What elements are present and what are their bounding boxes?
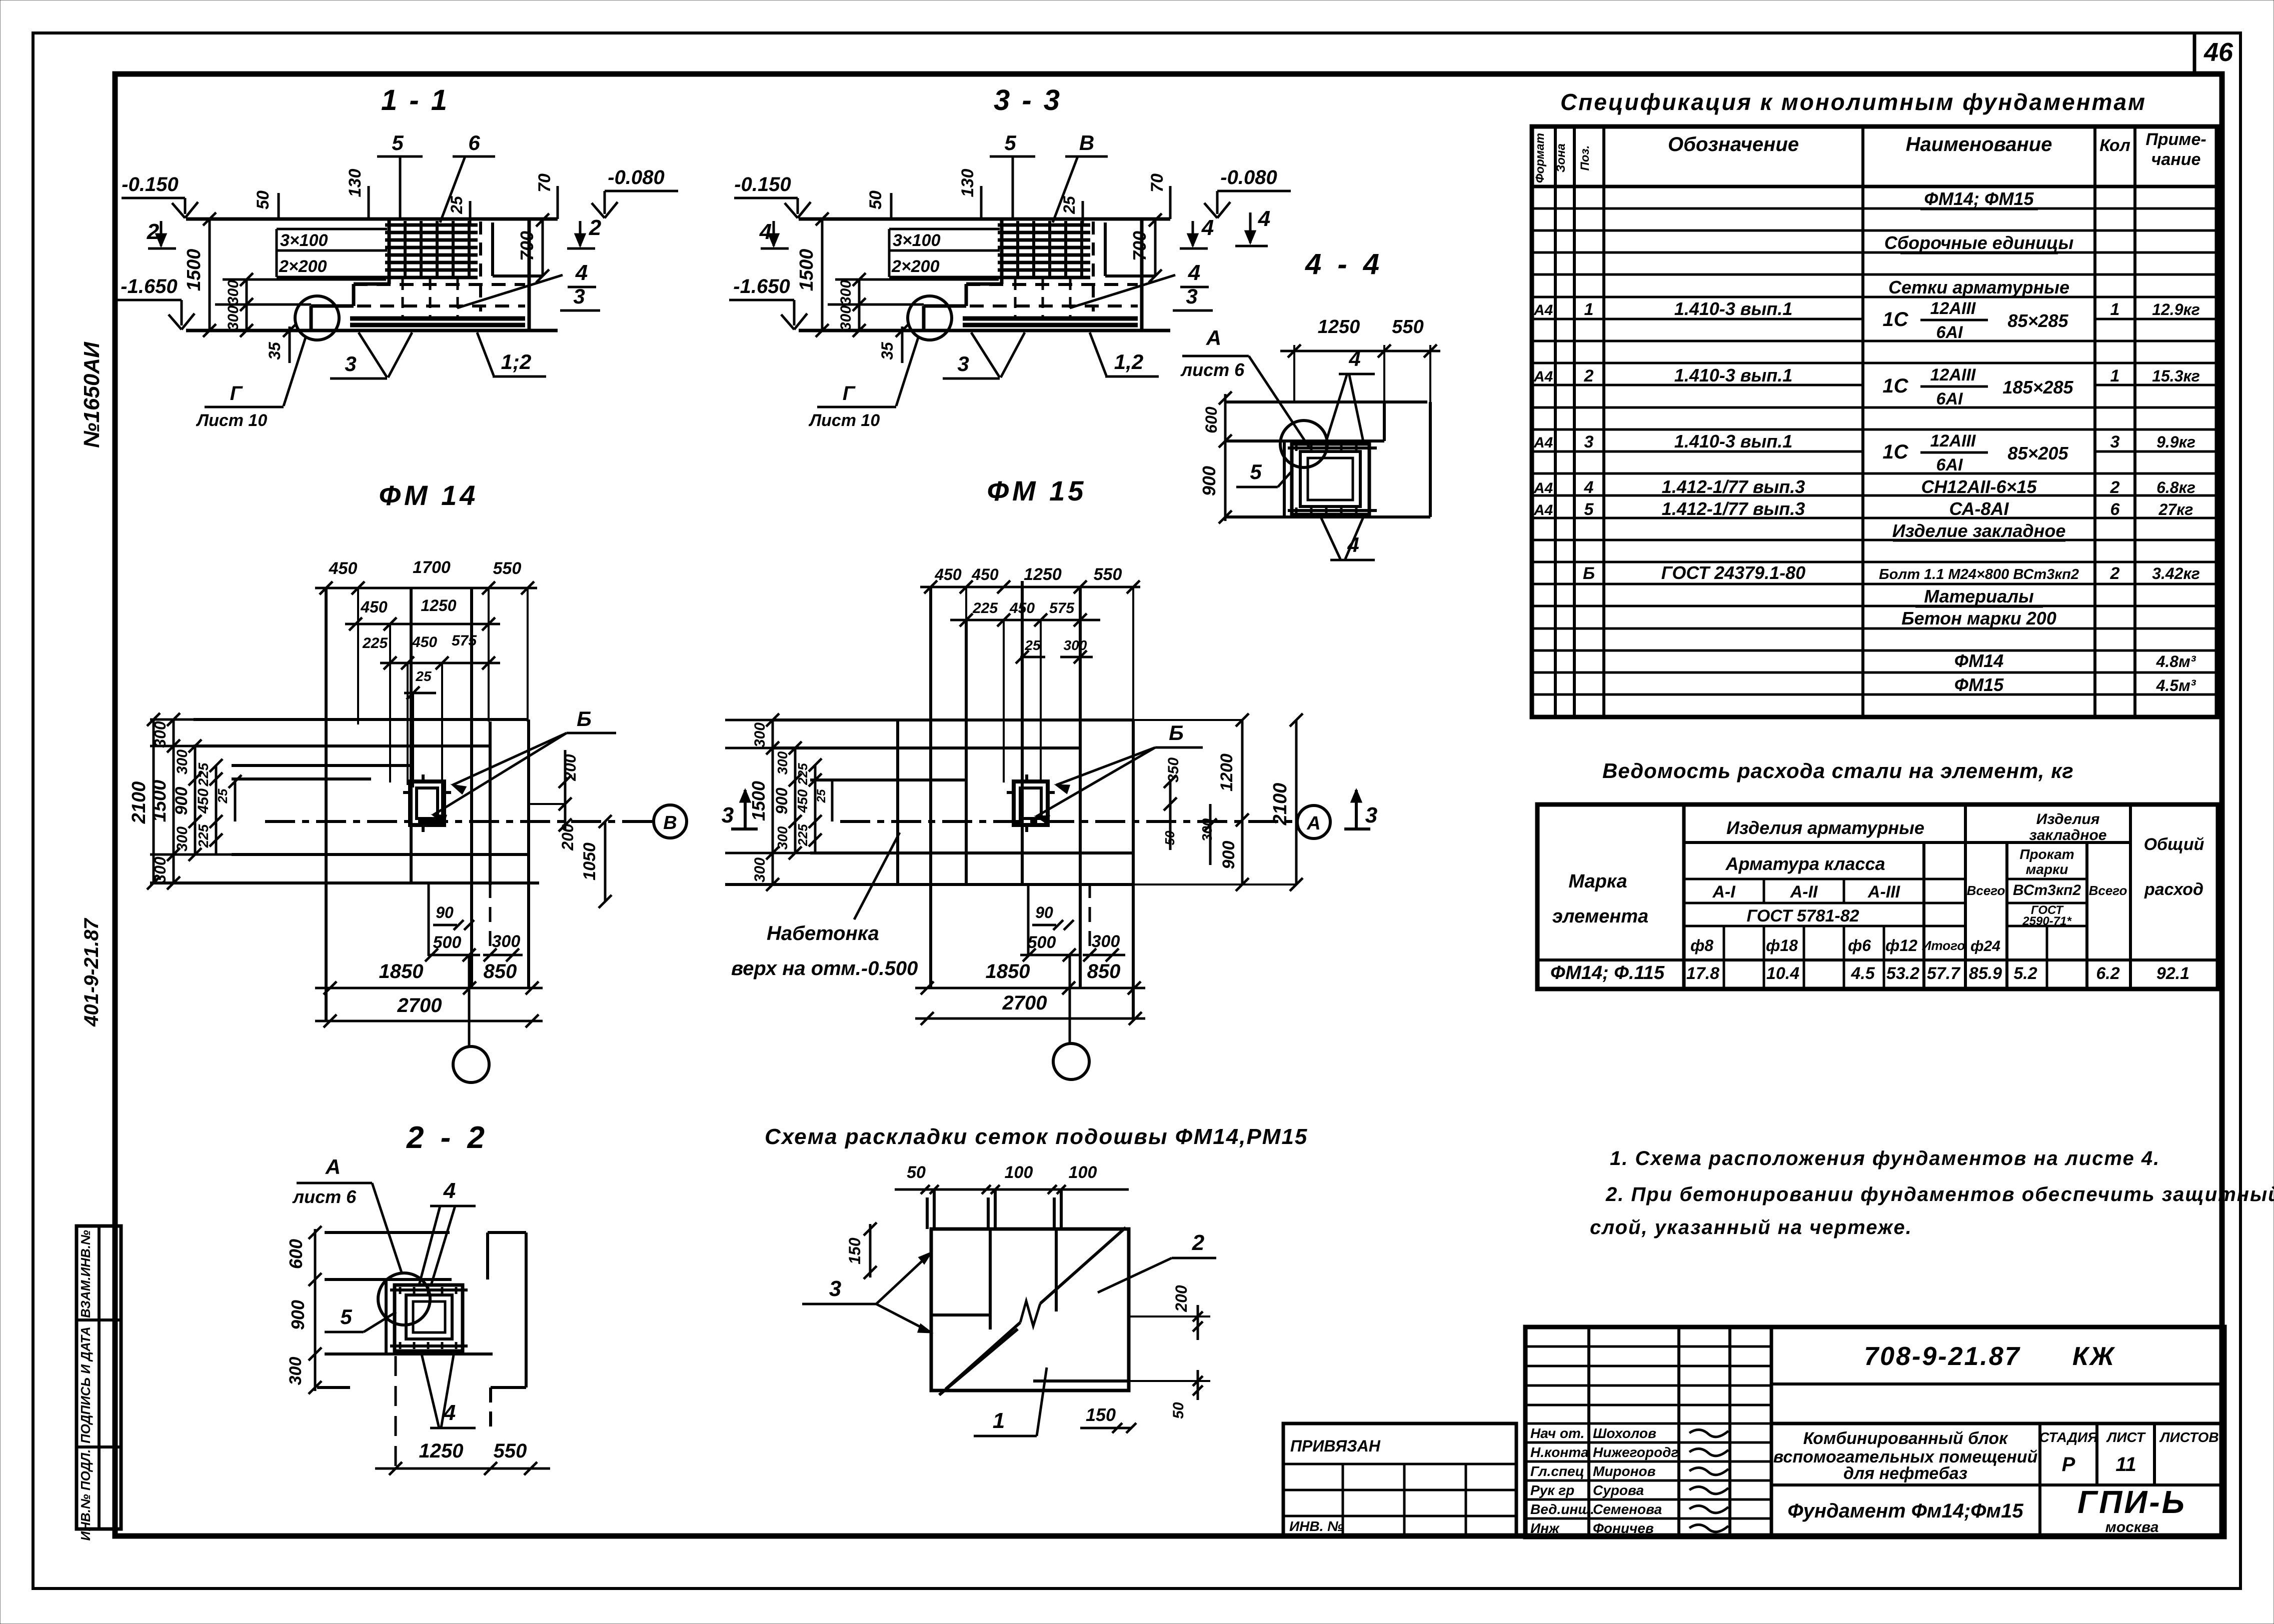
- svg-text:№1650АИ: №1650АИ: [80, 341, 104, 448]
- svg-text:Лист 10: Лист 10: [808, 411, 880, 430]
- svg-text:550: 550: [1392, 316, 1423, 337]
- svg-text:100: 100: [1069, 1163, 1097, 1182]
- svg-text:300: 300: [752, 722, 768, 747]
- svg-text:300: 300: [752, 857, 768, 882]
- svg-text:Набетонка: Набетонка: [767, 922, 879, 944]
- svg-text:5: 5: [1004, 131, 1016, 154]
- svg-text:Сурова: Сурова: [1593, 1482, 1644, 1498]
- svg-text:85.9: 85.9: [1969, 964, 2002, 983]
- svg-text:53.2: 53.2: [1886, 964, 1919, 983]
- svg-text:Сборочные единицы: Сборочные единицы: [1884, 232, 2074, 253]
- svg-text:Гл.спец: Гл.спец: [1530, 1463, 1584, 1479]
- svg-text:300: 300: [838, 305, 854, 330]
- svg-text:200: 200: [1172, 1285, 1190, 1312]
- svg-text:А-III: А-III: [1867, 882, 1901, 901]
- svg-text:300: 300: [151, 721, 169, 748]
- svg-text:3: 3: [573, 284, 585, 308]
- svg-text:225: 225: [196, 762, 211, 786]
- svg-text:ФМ14; Ф.115: ФМ14; Ф.115: [1550, 962, 1665, 983]
- svg-text:ф12: ф12: [1885, 936, 1917, 954]
- svg-text:1250: 1250: [419, 1440, 464, 1462]
- svg-text:575: 575: [452, 632, 477, 649]
- svg-text:5: 5: [1584, 500, 1594, 519]
- svg-text:3: 3: [1584, 432, 1594, 451]
- svg-text:Нижегородг: Нижегородг: [1593, 1444, 1678, 1460]
- svg-text:А: А: [325, 1155, 341, 1178]
- svg-text:1200: 1200: [1217, 753, 1236, 791]
- svg-text:-0.080: -0.080: [1220, 166, 1277, 188]
- svg-text:700: 700: [517, 231, 537, 261]
- svg-text:1.410-3 вып.1: 1.410-3 вып.1: [1674, 365, 1793, 385]
- svg-text:расход: расход: [2144, 880, 2203, 899]
- svg-text:СН12АII-6×15: СН12АII-6×15: [1921, 476, 2037, 497]
- svg-text:900: 900: [1219, 841, 1238, 869]
- svg-text:50: 50: [866, 190, 885, 209]
- svg-text:Г: Г: [843, 382, 856, 404]
- svg-text:4: 4: [1258, 206, 1270, 231]
- svg-text:ФМ 14: ФМ 14: [379, 479, 479, 511]
- svg-text:лист 6: лист 6: [292, 1186, 357, 1207]
- svg-text:Всего: Всего: [1967, 883, 2005, 898]
- svg-text:9.9кг: 9.9кг: [2156, 433, 2195, 451]
- svg-text:Фоничев: Фоничев: [1593, 1520, 1654, 1536]
- svg-text:300: 300: [174, 826, 191, 851]
- svg-text:ПОДПИСЬ И ДАТА: ПОДПИСЬ И ДАТА: [78, 1326, 93, 1443]
- svg-text:2590-71*: 2590-71*: [2022, 914, 2072, 928]
- svg-text:600: 600: [1202, 406, 1220, 433]
- svg-text:1С: 1С: [1882, 375, 1908, 397]
- svg-text:4: 4: [1348, 347, 1360, 370]
- svg-text:300: 300: [1199, 818, 1215, 841]
- svg-text:85×205: 85×205: [2007, 443, 2068, 463]
- svg-text:2: 2: [1584, 366, 1594, 385]
- svg-text:50: 50: [1170, 1402, 1187, 1419]
- svg-text:1850: 1850: [379, 960, 424, 982]
- svg-text:50: 50: [254, 190, 273, 209]
- svg-text:3: 3: [722, 803, 734, 827]
- svg-text:25: 25: [815, 789, 828, 803]
- svg-text:2×200: 2×200: [279, 257, 327, 276]
- svg-text:4.5: 4.5: [1850, 964, 1875, 983]
- svg-text:ИНВ.№ ПОДЛ.: ИНВ.№ ПОДЛ.: [78, 1449, 93, 1541]
- svg-text:-1.650: -1.650: [733, 275, 790, 297]
- svg-text:А4: А4: [1533, 502, 1553, 518]
- svg-text:Н.конта: Н.конта: [1530, 1444, 1589, 1460]
- svg-text:225: 225: [795, 824, 810, 846]
- svg-text:Вед.инш.: Вед.инш.: [1530, 1501, 1594, 1517]
- svg-text:450: 450: [195, 788, 212, 814]
- svg-text:2: 2: [589, 215, 602, 240]
- svg-text:Изделия арматурные: Изделия арматурные: [1726, 817, 1924, 838]
- svg-text:900: 900: [172, 787, 191, 815]
- svg-text:700: 700: [1129, 231, 1150, 261]
- svg-text:11: 11: [2115, 1453, 2136, 1475]
- svg-text:2: 2: [2110, 564, 2120, 583]
- svg-text:1.410-3 вып.1: 1.410-3 вып.1: [1674, 298, 1793, 319]
- svg-text:Материалы: Материалы: [1924, 586, 2034, 606]
- svg-text:А4: А4: [1533, 368, 1553, 385]
- svg-text:ЛИСТОВ: ЛИСТОВ: [2159, 1429, 2218, 1445]
- svg-text:СТАДИЯ: СТАДИЯ: [2039, 1429, 2098, 1445]
- svg-text:Марка: Марка: [1568, 871, 1627, 892]
- svg-text:ГПИ-Ь: ГПИ-Ь: [2077, 1484, 2186, 1520]
- svg-text:Схема раскладки сеток подошвы: Схема раскладки сеток подошвы ФМ14,РМ15: [765, 1124, 1308, 1149]
- svg-text:4: 4: [443, 1178, 456, 1203]
- svg-text:6АI: 6АI: [1936, 455, 1963, 474]
- svg-text:450: 450: [971, 565, 999, 583]
- svg-text:ЛИСТ: ЛИСТ: [2106, 1429, 2146, 1445]
- svg-text:Наименование: Наименование: [1906, 133, 2052, 155]
- svg-text:Всего: Всего: [2089, 883, 2127, 898]
- svg-text:Инж: Инж: [1530, 1520, 1560, 1536]
- svg-text:550: 550: [494, 1440, 527, 1462]
- svg-text:Изделия: Изделия: [2036, 811, 2100, 827]
- svg-text:4 - 4: 4 - 4: [1305, 248, 1383, 280]
- svg-text:слой, указанный на чертеже.: слой, указанный на чертеже.: [1590, 1216, 1912, 1238]
- svg-text:12АIII: 12АIII: [1930, 365, 1976, 384]
- svg-text:12АIII: 12АIII: [1930, 431, 1976, 450]
- svg-text:2: 2: [2110, 478, 2120, 497]
- svg-text:2100: 2100: [1270, 783, 1291, 826]
- svg-text:70: 70: [1148, 173, 1167, 192]
- svg-text:для нефтебаз: для нефтебаз: [1843, 1464, 1967, 1483]
- svg-text:ф8: ф8: [1690, 936, 1713, 954]
- svg-text:Прокат: Прокат: [2019, 846, 2074, 862]
- svg-text:3: 3: [1186, 284, 1197, 308]
- svg-text:4.5м³: 4.5м³: [2156, 676, 2196, 694]
- svg-text:450: 450: [934, 565, 962, 583]
- svg-text:3 - 3: 3 - 3: [994, 84, 1062, 116]
- svg-text:Болт 1.1 М24×800 ВСт3кп2: Болт 1.1 М24×800 ВСт3кп2: [1879, 566, 2079, 582]
- svg-text:3: 3: [345, 352, 356, 375]
- svg-text:Спецификация к монолитным ф: Спецификация к монолитным фундаментам: [1560, 89, 2146, 115]
- svg-text:708-9-21.87: 708-9-21.87: [1864, 1342, 2020, 1371]
- svg-text:1500: 1500: [184, 249, 205, 291]
- svg-text:50: 50: [1162, 830, 1177, 845]
- svg-text:5: 5: [1250, 460, 1262, 483]
- svg-text:1 - 1: 1 - 1: [381, 84, 449, 116]
- svg-text:1С: 1С: [1882, 308, 1908, 330]
- svg-text:200: 200: [561, 754, 579, 781]
- svg-text:ГОСТ 5781-82: ГОСТ 5781-82: [1746, 906, 1859, 925]
- svg-text:1.412-1/77 вып.3: 1.412-1/77 вып.3: [1662, 498, 1805, 519]
- svg-text:Обозначение: Обозначение: [1668, 133, 1799, 155]
- svg-text:300: 300: [225, 280, 242, 305]
- svg-text:6.8кг: 6.8кг: [2156, 478, 2195, 496]
- svg-text:2: 2: [147, 219, 160, 244]
- svg-text:90: 90: [436, 903, 454, 921]
- svg-text:300: 300: [286, 1357, 305, 1385]
- svg-text:2: 2: [1192, 1230, 1205, 1255]
- svg-text:1500: 1500: [796, 249, 817, 291]
- svg-text:1С: 1С: [1882, 441, 1908, 463]
- svg-text:3: 3: [829, 1276, 841, 1301]
- svg-text:Миронов: Миронов: [1593, 1463, 1656, 1479]
- svg-text:Нач от.: Нач от.: [1530, 1425, 1584, 1441]
- svg-text:марки: марки: [2026, 861, 2068, 877]
- svg-text:А4: А4: [1533, 480, 1553, 496]
- svg-text:12АIII: 12АIII: [1930, 299, 1976, 318]
- svg-text:6: 6: [2110, 500, 2120, 519]
- svg-text:Комбинированный блок: Комбинированный блок: [1803, 1429, 2009, 1448]
- svg-text:401-9-21.87: 401-9-21.87: [81, 917, 103, 1026]
- svg-text:300: 300: [838, 280, 854, 305]
- svg-text:-1.650: -1.650: [121, 275, 177, 297]
- svg-text:27кг: 27кг: [2158, 500, 2193, 518]
- svg-text:185×285: 185×285: [2002, 377, 2073, 397]
- svg-text:550: 550: [493, 559, 522, 578]
- svg-text:А-II: А-II: [1790, 882, 1818, 901]
- svg-text:Сетки арматурные: Сетки арматурные: [1888, 277, 2069, 297]
- svg-text:500: 500: [1028, 933, 1056, 952]
- svg-text:10.4: 10.4: [1766, 964, 1799, 983]
- svg-text:чание: чание: [2151, 150, 2201, 169]
- svg-text:А: А: [1206, 326, 1221, 349]
- svg-text:1250: 1250: [1318, 316, 1360, 337]
- svg-text:ф18: ф18: [1766, 936, 1798, 954]
- svg-text:Семенова: Семенова: [1593, 1501, 1662, 1517]
- svg-text:15.3кг: 15.3кг: [2152, 367, 2200, 385]
- svg-text:-0.080: -0.080: [608, 166, 664, 188]
- svg-text:900: 900: [773, 787, 791, 814]
- svg-text:москва: москва: [2105, 1519, 2159, 1535]
- svg-text:225: 225: [972, 600, 998, 616]
- svg-text:1250: 1250: [421, 596, 456, 614]
- svg-text:А4: А4: [1533, 302, 1553, 318]
- svg-text:4: 4: [759, 219, 772, 244]
- svg-text:300: 300: [151, 856, 169, 883]
- svg-text:150: 150: [846, 1237, 864, 1264]
- svg-text:Зона: Зона: [1554, 143, 1568, 172]
- svg-text:Шохолов: Шохолов: [1593, 1425, 1656, 1441]
- svg-text:-0.150: -0.150: [122, 173, 178, 195]
- svg-text:300: 300: [775, 751, 790, 774]
- svg-text:90: 90: [1035, 903, 1053, 921]
- svg-text:2. При бетонировании фундаме: 2. При бетонировании фундаментов обеспеч…: [1605, 1183, 2274, 1205]
- svg-text:550: 550: [1094, 565, 1122, 584]
- svg-text:1500: 1500: [748, 781, 769, 821]
- svg-text:ФМ14: ФМ14: [1954, 650, 2004, 671]
- svg-text:6АI: 6АI: [1936, 323, 1963, 342]
- svg-text:ИНВ. №: ИНВ. №: [1289, 1518, 1343, 1534]
- svg-text:46: 46: [2203, 38, 2233, 67]
- svg-text:450: 450: [360, 598, 388, 616]
- svg-text:225: 225: [362, 635, 388, 651]
- svg-text:ВЗАМ.ИНВ.№: ВЗАМ.ИНВ.№: [78, 1230, 93, 1318]
- svg-text:5.2: 5.2: [2013, 964, 2037, 983]
- svg-text:4: 4: [575, 260, 588, 285]
- svg-text:ФМ14; ФМ15: ФМ14; ФМ15: [1924, 188, 2034, 209]
- svg-text:А4: А4: [1533, 434, 1553, 451]
- svg-text:25: 25: [215, 788, 230, 803]
- svg-text:450: 450: [795, 789, 810, 813]
- svg-text:3×100: 3×100: [280, 231, 328, 250]
- svg-text:6АI: 6АI: [1936, 389, 1963, 408]
- svg-text:ф24: ф24: [1970, 938, 2000, 954]
- svg-text:1: 1: [2110, 366, 2120, 385]
- svg-text:Рук гр: Рук гр: [1530, 1482, 1574, 1498]
- svg-text:-0.150: -0.150: [734, 173, 791, 195]
- svg-text:2100: 2100: [129, 781, 150, 824]
- svg-text:1.412-1/77 вып.3: 1.412-1/77 вып.3: [1662, 476, 1805, 497]
- svg-text:Арматура класса: Арматура класса: [1725, 853, 1885, 874]
- svg-text:элемента: элемента: [1552, 906, 1648, 927]
- svg-text:575: 575: [1049, 600, 1075, 616]
- svg-text:850: 850: [1087, 960, 1121, 982]
- svg-text:ГОСТ 24379.1-80: ГОСТ 24379.1-80: [1661, 562, 1805, 583]
- svg-text:450: 450: [329, 559, 358, 578]
- svg-text:Фундамент Фм14;Фм15: Фундамент Фм14;Фм15: [1787, 1500, 2023, 1522]
- svg-text:3.42кг: 3.42кг: [2152, 564, 2200, 582]
- svg-text:300: 300: [174, 749, 191, 774]
- svg-text:5: 5: [340, 1305, 352, 1328]
- svg-text:ПРИВЯЗАН: ПРИВЯЗАН: [1290, 1437, 1381, 1455]
- svg-text:СА-8АI: СА-8АI: [1949, 498, 2009, 519]
- svg-text:Изделие закладное: Изделие закладное: [1892, 520, 2066, 541]
- svg-text:1250: 1250: [1024, 565, 1062, 584]
- svg-text:150: 150: [1086, 1404, 1116, 1425]
- svg-text:ФМ15: ФМ15: [1954, 674, 2004, 695]
- svg-text:900: 900: [1199, 466, 1219, 496]
- svg-text:300: 300: [775, 826, 790, 849]
- svg-text:Приме-: Приме-: [2145, 130, 2206, 149]
- svg-text:1850: 1850: [986, 960, 1030, 982]
- svg-text:225: 225: [196, 824, 211, 848]
- svg-text:1: 1: [1584, 300, 1594, 319]
- svg-text:25: 25: [415, 668, 432, 684]
- svg-text:50: 50: [907, 1163, 926, 1182]
- svg-text:3×100: 3×100: [893, 231, 941, 250]
- svg-text:В: В: [1079, 131, 1094, 154]
- svg-text:Общий: Общий: [2144, 835, 2204, 854]
- svg-text:3: 3: [1365, 803, 1377, 827]
- svg-text:1;2: 1;2: [501, 350, 532, 373]
- svg-text:900: 900: [288, 1300, 308, 1330]
- svg-text:6.2: 6.2: [2096, 964, 2119, 983]
- svg-text:200: 200: [559, 823, 577, 851]
- svg-text:ВСт3кп2: ВСт3кп2: [2013, 882, 2081, 898]
- svg-text:2700: 2700: [1002, 992, 1047, 1014]
- svg-text:2×200: 2×200: [891, 257, 940, 276]
- svg-text:57.7: 57.7: [1927, 964, 1961, 983]
- svg-text:5: 5: [392, 131, 404, 154]
- svg-text:3: 3: [957, 352, 969, 375]
- svg-text:1.410-3 вып.1: 1.410-3 вып.1: [1674, 431, 1793, 451]
- svg-text:ФМ 15: ФМ 15: [987, 475, 1087, 506]
- svg-text:Поз.: Поз.: [1578, 145, 1592, 171]
- svg-text:Формат: Формат: [1533, 133, 1547, 183]
- svg-text:Бетон марки 200: Бетон марки 200: [1901, 608, 2056, 628]
- svg-text:Итого: Итого: [1922, 938, 1965, 953]
- svg-text:70: 70: [535, 173, 554, 192]
- svg-text:А: А: [1306, 813, 1320, 834]
- svg-text:350: 350: [1165, 757, 1182, 782]
- svg-text:В: В: [663, 812, 677, 833]
- svg-text:850: 850: [484, 960, 517, 982]
- svg-text:1,2: 1,2: [1114, 350, 1143, 373]
- svg-text:Кол: Кол: [2099, 136, 2130, 155]
- svg-text:4.8м³: 4.8м³: [2156, 652, 2196, 670]
- svg-text:130: 130: [958, 169, 977, 197]
- svg-text:85×285: 85×285: [2007, 310, 2068, 331]
- svg-text:лист 6: лист 6: [1180, 359, 1245, 380]
- svg-text:100: 100: [1005, 1163, 1033, 1182]
- svg-text:130: 130: [346, 169, 365, 197]
- svg-text:35: 35: [878, 341, 896, 360]
- svg-text:Р: Р: [2062, 1453, 2075, 1475]
- svg-text:Б: Б: [577, 707, 592, 730]
- svg-text:92.1: 92.1: [2156, 964, 2189, 983]
- svg-text:300: 300: [1064, 637, 1087, 653]
- svg-text:2 - 2: 2 - 2: [406, 1120, 489, 1155]
- svg-text:1: 1: [993, 1408, 1005, 1433]
- svg-text:ф6: ф6: [1848, 936, 1871, 954]
- svg-text:закладное: закладное: [2029, 827, 2107, 843]
- svg-text:Г: Г: [230, 382, 244, 404]
- svg-text:КЖ: КЖ: [2072, 1342, 2115, 1371]
- svg-text:600: 600: [286, 1239, 306, 1269]
- svg-text:4: 4: [1584, 478, 1594, 497]
- svg-text:А-I: А-I: [1712, 882, 1736, 901]
- svg-text:1: 1: [2110, 300, 2120, 319]
- svg-text:225: 225: [795, 763, 810, 785]
- svg-text:35: 35: [266, 341, 284, 360]
- svg-text:450: 450: [1009, 600, 1035, 616]
- svg-text:4: 4: [1201, 215, 1214, 240]
- svg-text:1050: 1050: [580, 842, 599, 880]
- svg-text:6: 6: [468, 131, 480, 154]
- svg-text:2700: 2700: [397, 994, 442, 1016]
- svg-text:Ведомость расхода стали: Ведомость расхода стали на элемент, кг: [1602, 759, 2074, 782]
- svg-text:17.8: 17.8: [1686, 964, 1719, 983]
- svg-text:верх на отм.-0.500: верх на отм.-0.500: [731, 957, 918, 979]
- svg-text:300: 300: [225, 305, 242, 330]
- svg-text:1500: 1500: [149, 780, 170, 822]
- svg-text:Б: Б: [1583, 564, 1595, 583]
- svg-text:3: 3: [2110, 432, 2120, 451]
- svg-text:Б: Б: [1169, 721, 1184, 744]
- svg-text:450: 450: [412, 634, 437, 650]
- svg-text:Лист 10: Лист 10: [196, 411, 268, 430]
- svg-text:4: 4: [1188, 260, 1200, 285]
- svg-text:1. Схема расположения фунд: 1. Схема расположения фундаментов на лис…: [1610, 1147, 2160, 1169]
- svg-text:12.9кг: 12.9кг: [2152, 300, 2200, 318]
- svg-text:1700: 1700: [413, 558, 451, 577]
